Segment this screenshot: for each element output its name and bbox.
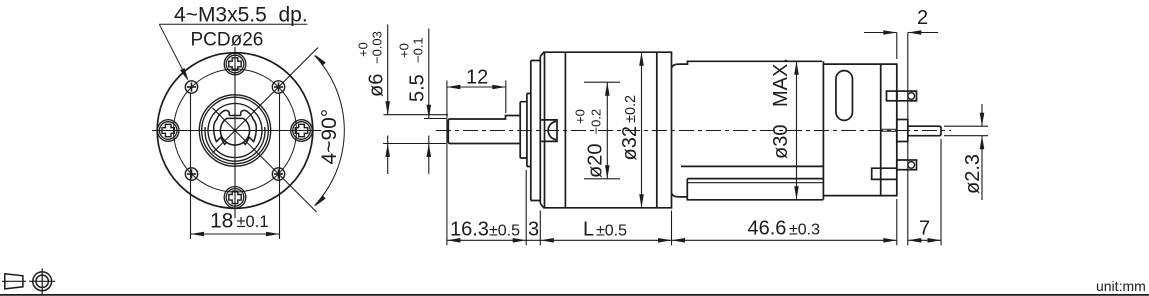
projection crosshair horizontal — [29, 280, 55, 282]
arc arrowhead bottom — [315, 195, 326, 206]
svg-text:ø30: ø30 — [770, 125, 792, 159]
ext 46.6 right — [896, 199, 898, 245]
M3 tapped hole SW — [185, 168, 197, 180]
svg-text:5.5: 5.5 — [407, 74, 429, 102]
arrow 16.3 right — [513, 238, 527, 243]
arrow 12 left — [447, 85, 461, 90]
arrow L left — [540, 238, 554, 243]
arrow 5.5 top — [427, 105, 432, 119]
motor can front shoulder bottom — [672, 194, 688, 197]
svg-text:−0.03: −0.03 — [370, 31, 385, 64]
bottom dim chain line — [447, 239, 897, 241]
dim text Ø20 +0 -0.2 rotated — [573, 109, 607, 178]
svg-text:4~90°: 4~90° — [318, 109, 341, 165]
carrier notch floor — [229, 115, 241, 117]
endcap vent oval — [836, 71, 853, 121]
projection circle inner — [36, 275, 48, 287]
arrow 5.5 bottom — [427, 144, 432, 158]
svg-text:−0.1: −0.1 — [411, 37, 426, 63]
centerline vertical front view — [234, 47, 236, 218]
brush housing bulge — [872, 168, 897, 179]
projection circle outer — [33, 272, 52, 291]
internal bearing pocket — [541, 120, 557, 141]
dim 12 extension right — [505, 81, 507, 114]
svg-text:−0.2: −0.2 — [589, 109, 604, 135]
screw N (head with phillips cross) — [224, 53, 246, 75]
washer ring — [527, 61, 531, 201]
dim 2 extension left — [896, 33, 898, 60]
motor can bottom strip — [687, 179, 823, 200]
dim 5.5 upper tick — [424, 118, 446, 120]
dim Ø6 upper tick — [384, 114, 449, 116]
dim 2 extension right / 7 left extension — [907, 33, 909, 246]
terminal slot top — [887, 91, 897, 101]
arrow Ø30 top — [794, 61, 799, 75]
dim 12 extension left / 16.3 left — [446, 81, 448, 246]
dim text Ø30 MAX rotated — [770, 58, 792, 159]
ext 7 right — [940, 139, 942, 245]
arrow 12 right — [492, 85, 506, 90]
frustum side view — [5, 274, 23, 289]
dim Ø2.3 line lower — [981, 136, 983, 200]
gearbox internal section line 2 — [656, 52, 658, 208]
label 4~90deg rotated — [318, 109, 341, 165]
arrow Ø20 bottom — [605, 165, 610, 179]
arrow Ø6 top — [385, 101, 390, 115]
arrow L right — [658, 238, 672, 243]
M3 tapped hole NE — [272, 81, 284, 93]
centerline horizontal front view — [152, 130, 321, 132]
svg-text:±0.3: ±0.3 — [789, 222, 820, 239]
dim Ø20 tick bottom — [584, 178, 620, 180]
screw E (head with phillips cross) — [291, 120, 313, 142]
terminal bottom — [897, 160, 917, 170]
arrow 7 right — [928, 238, 942, 243]
frustum centerline — [2, 280, 26, 282]
dim Ø6 line upper — [387, 25, 389, 115]
PCD Ø26 bolt circle — [174, 69, 297, 192]
svg-text:12: 12 — [466, 67, 488, 89]
svg-text:46.6: 46.6 — [748, 218, 787, 240]
dim Ø2.3 extension top — [944, 125, 988, 127]
bottom border line — [0, 294, 1149, 296]
dimension 18 extension line right — [279, 94, 281, 240]
arrow 2 left — [883, 30, 897, 35]
diagonal centerline 45 deg down-right — [212, 108, 316, 212]
svg-text:±0.2: ±0.2 — [623, 95, 639, 123]
svg-text:ø20: ø20 — [585, 144, 607, 178]
svg-text:3: 3 — [528, 219, 539, 241]
dim 2 line left tail — [864, 32, 897, 34]
dim Ø2.3 line upper — [981, 104, 983, 126]
svg-text:L: L — [583, 219, 594, 241]
ext L right / 46.6 left — [671, 211, 673, 246]
projection crosshair vertical — [41, 268, 43, 294]
svg-text:ø32: ø32 — [619, 126, 641, 160]
motor can rear edge — [822, 61, 824, 199]
arc arrowhead top — [315, 55, 326, 66]
dim 12 line — [447, 86, 506, 88]
angular dimension arc 4~90 — [315, 56, 345, 206]
dim Ø30 line — [796, 61, 798, 200]
svg-text:18: 18 — [210, 210, 233, 233]
arrow Ø2.3 top — [980, 113, 985, 127]
arrow Ø6 bottom — [385, 144, 390, 158]
dim Ø32 line — [641, 52, 643, 208]
gearbox case seam — [544, 52, 546, 208]
dim 5.5 line lower — [428, 136, 430, 175]
shaft bearing boss — [520, 94, 527, 167]
svg-text:7: 7 — [919, 218, 930, 240]
svg-text:4~M3x5.5 dp.: 4~M3x5.5 dp. — [174, 4, 308, 27]
terminal top — [897, 91, 917, 101]
dim text Ø6 +0 -0.03 rotated — [356, 31, 388, 97]
commutator slot lines — [881, 129, 897, 131]
screw W (head with phillips cross) — [157, 120, 179, 142]
svg-text:MAX.: MAX. — [770, 58, 792, 107]
arrow 2 right — [908, 30, 922, 35]
carrier cutout right lobe — [241, 110, 256, 144]
dim 5.5 line upper — [428, 29, 430, 119]
ext 16.3 right — [525, 170, 527, 245]
dim 2 line right tail — [908, 32, 938, 34]
shaft bottom extension tick — [383, 143, 446, 145]
svg-text:ø2.3: ø2.3 — [962, 154, 984, 194]
carrier cutout left lobe — [214, 110, 230, 144]
arrow Ø20 top — [605, 82, 610, 96]
bottom dim 7 line — [908, 239, 941, 241]
svg-text:16.3: 16.3 — [450, 219, 489, 241]
arrow 46.6 right — [883, 238, 897, 243]
gearbox internal section line 1 — [564, 52, 566, 208]
dim 18 arrow right — [266, 232, 280, 237]
gearbox body outline — [540, 52, 671, 208]
screw S (head with phillips cross) — [224, 187, 246, 209]
terminal top hole — [908, 93, 915, 100]
arrow Ø32 bottom — [639, 194, 644, 208]
arrow Ø2.3 bottom — [980, 136, 985, 150]
boss ring outer — [199, 95, 270, 166]
endcap outline — [823, 64, 896, 196]
motor can bottom flat — [681, 165, 823, 167]
dim 18 arrow left — [191, 232, 205, 237]
output shaft with flat — [448, 116, 520, 144]
inner circle B — [208, 104, 262, 158]
inner partial arc r30 lower — [205, 127, 265, 161]
svg-text:±0.1: ±0.1 — [237, 213, 269, 231]
dim text Ø32 +-0.2 rotated — [619, 95, 641, 161]
leader arrowhead — [180, 68, 189, 82]
rear bearing boss — [897, 120, 908, 142]
svg-text:+0: +0 — [573, 109, 588, 124]
terminal bottom hole — [908, 162, 915, 169]
dim Ø20 tick top — [584, 81, 620, 83]
dim Ø20 line — [606, 82, 608, 179]
svg-text:PCDø26: PCDø26 — [191, 30, 264, 51]
dim Ø6 line lower — [387, 136, 389, 175]
svg-text:+0: +0 — [356, 42, 371, 57]
M3 tapped hole NW — [185, 81, 197, 93]
arrow 16.3 left — [447, 238, 461, 243]
boss ring inner — [202, 97, 269, 164]
rear shaft — [908, 126, 941, 136]
arrow Ø32 top — [639, 52, 644, 65]
internal bearing half circle — [548, 121, 556, 139]
main axis centerline — [436, 130, 951, 132]
arrow 46.6 left — [672, 238, 686, 243]
M3 tapped hole SE — [272, 168, 284, 180]
svg-text:±0.5: ±0.5 — [596, 223, 627, 240]
svg-text:±0.5: ±0.5 — [489, 223, 520, 240]
endcap internal step — [880, 64, 882, 196]
dim text Ø2.3 rotated — [962, 154, 984, 194]
gearbox outer circle Ø32 — [157, 53, 313, 209]
strip inner line — [687, 182, 823, 184]
motor can front shoulder top — [672, 61, 822, 67]
dimension 18 extension line left — [190, 94, 192, 240]
arrow 7 left — [908, 238, 922, 243]
D-shaft cross-section Ø6 with flat — [220, 118, 249, 145]
dim text 5.5 +0 -0.1 rotated — [397, 37, 429, 102]
svg-text:2: 2 — [917, 7, 928, 29]
front mounting plate 3mm — [531, 61, 541, 201]
arrowheads — [385, 30, 984, 242]
svg-text:+0: +0 — [397, 43, 412, 58]
diagonal centerline 45 deg up-right — [212, 48, 318, 154]
leader line for M3 holes — [159, 24, 307, 79]
dimension 18 line — [191, 233, 280, 235]
ext 3 right / L left — [539, 211, 541, 246]
arrow Ø30 bottom — [794, 186, 799, 200]
svg-text:ø6: ø6 — [366, 74, 388, 97]
svg-text:unit:mm: unit:mm — [1096, 278, 1146, 294]
dim Ø2.3 extension bottom — [944, 135, 988, 137]
